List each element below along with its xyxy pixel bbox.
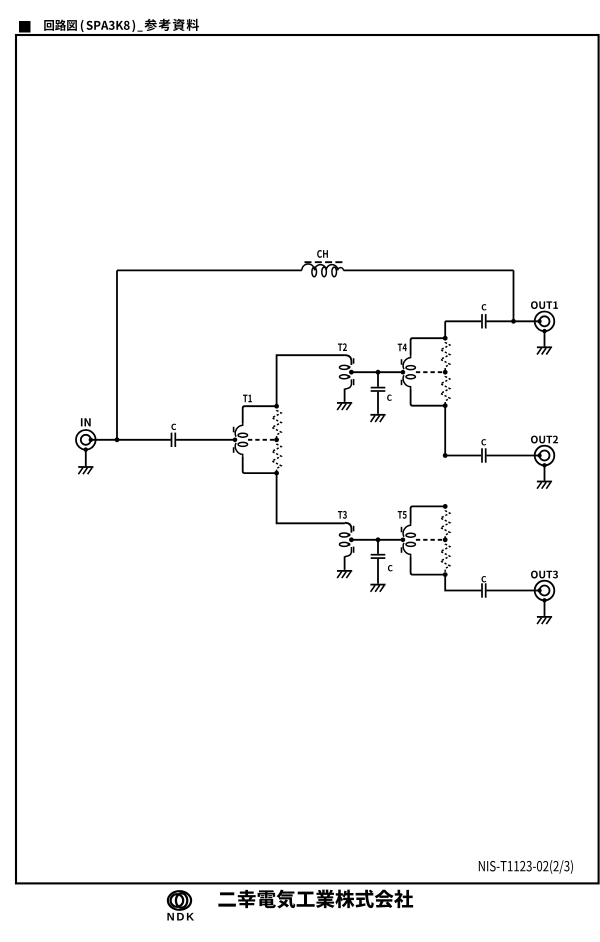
connector IN: [76, 430, 96, 450]
label T1: [243, 395, 252, 403]
node T4 top: [443, 336, 448, 341]
node T1 top: [274, 404, 279, 409]
wire T1 top loop to secondary: [243, 406, 277, 423]
node OUT1 junction: [511, 319, 516, 324]
ground T2: [337, 403, 352, 410]
node T5 bottom: [443, 572, 448, 577]
wire OUT2 line left: [445, 455, 481, 457]
capacitor C (input): [172, 433, 176, 447]
ground OUT1: [537, 347, 552, 354]
node T5 top: [443, 504, 448, 509]
label T5: [398, 511, 407, 519]
label IN: [81, 418, 91, 426]
wire IN to capacitor C: [91, 439, 171, 441]
wire OUT1 ground stem: [544, 331, 546, 346]
ground OUT3: [537, 617, 552, 624]
node T4 bottom: [443, 403, 448, 408]
ground IN: [78, 467, 93, 474]
transformer T2 winding: [340, 355, 354, 389]
transformer T5 upper secondary (dashed zigzag): [441, 506, 450, 539]
wire T3 to junction: [351, 539, 403, 541]
transformer T5 lower secondary (dashed zigzag): [441, 540, 450, 575]
wire T3 ground stem: [344, 556, 346, 570]
transformer T4 primary winding: [402, 355, 416, 389]
wire T1 top to T2: [277, 355, 345, 406]
wire top rail left: [117, 269, 302, 271]
wire top rail right: [343, 269, 513, 271]
company name 二幸電気工業株式会社: [218, 890, 413, 909]
wire T1 bottom loop to secondary: [243, 457, 277, 474]
wire OUT3 line right: [487, 590, 540, 592]
wire T4 center tap (dashed): [416, 371, 443, 373]
ground C (lower shunt) ground: [370, 585, 385, 592]
company logo NDK mark: [168, 891, 191, 910]
header bullet square: [19, 21, 31, 33]
wire riser to top rail: [116, 270, 118, 439]
transformer T3 winding: [340, 523, 354, 557]
wire OUT2 ground stem: [544, 465, 546, 480]
connector OUT1: [535, 312, 555, 332]
wire T5 bottom loop to secondary: [411, 557, 446, 575]
wire IN connector ground stem: [85, 450, 87, 467]
wire T1 bottom to T3: [277, 473, 345, 523]
wire T1 center tap (dashed): [248, 439, 275, 441]
node T5 middle: [443, 537, 448, 542]
node T1 middle: [274, 437, 279, 442]
node T1 bottom: [274, 471, 279, 476]
node T4 middle: [443, 370, 448, 375]
ground OUT2: [537, 482, 552, 489]
connector OUT2: [535, 446, 555, 466]
wire OUT1 line left: [445, 320, 481, 322]
document number NIS-T1123-02(2/3): [479, 860, 573, 874]
capacitor C (OUT1): [482, 314, 486, 328]
capacitor C (upper shunt): [371, 372, 386, 414]
label T3: [338, 511, 347, 519]
wire T4 top loop to secondary: [411, 338, 446, 355]
wire OUT1 line right: [487, 320, 540, 322]
company logo NDK text: [167, 913, 194, 921]
header title 回路図（SPA3K8）_参考資料: [44, 20, 77, 31]
transformer T1 lower secondary (dashed zigzag): [272, 440, 281, 473]
label T4: [398, 344, 407, 352]
label OUT1: [531, 301, 558, 309]
wire capacitor to T1: [176, 439, 235, 441]
wire T2 ground stem: [344, 389, 346, 402]
node input junction: [115, 437, 120, 442]
inductor CH (choke): [302, 262, 344, 277]
wire T5 center tap (dashed): [416, 539, 443, 541]
capacitor C (OUT3): [482, 583, 486, 597]
wire T2 to junction: [351, 371, 403, 373]
capacitor C (OUT2): [482, 448, 486, 462]
node OUT2 junction: [443, 453, 448, 458]
transformer T5 primary winding: [402, 523, 416, 557]
wire top rail drop to OUT1: [513, 270, 515, 321]
transformer T4 lower secondary (dashed zigzag): [441, 372, 450, 406]
node shunt cap junction: [376, 370, 381, 375]
wire T5 bottom to OUT3 line: [445, 575, 481, 591]
wire T4 top to OUT1 line: [444, 321, 446, 338]
transformer T4 upper secondary (dashed zigzag): [441, 338, 450, 372]
wire T5 top loop to secondary: [411, 506, 446, 523]
wire T4 bottom to OUT2 junction: [444, 406, 446, 456]
label OUT2: [531, 436, 558, 444]
node lower shunt cap junction: [376, 537, 381, 542]
capacitor C (lower shunt): [371, 540, 386, 584]
ground C (upper shunt) ground: [370, 415, 385, 422]
wire OUT3 ground stem: [544, 600, 546, 616]
label OUT3: [531, 571, 558, 579]
wire OUT2 line right: [487, 455, 540, 457]
ground T3: [337, 571, 352, 578]
wire T4 bottom loop to secondary: [411, 389, 446, 406]
transformer T1 primary winding: [234, 423, 248, 457]
label T2: [338, 343, 347, 351]
label CH: [317, 250, 328, 258]
transformer T1 upper secondary (dashed zigzag): [272, 406, 281, 440]
connector OUT3: [535, 581, 555, 601]
